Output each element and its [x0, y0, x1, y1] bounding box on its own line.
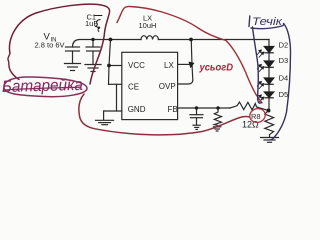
- svg-text:Батарейка: Батарейка: [2, 76, 83, 96]
- svg-text:D4: D4: [279, 74, 289, 83]
- svg-text:D5: D5: [279, 90, 289, 99]
- svg-text:12Ω: 12Ω: [242, 120, 259, 130]
- svg-text:V: V: [44, 32, 51, 43]
- svg-text:усьогD: усьогD: [199, 62, 234, 74]
- svg-text:CE: CE: [128, 83, 139, 92]
- svg-text:Течік: Течік: [252, 16, 283, 28]
- svg-text:LX: LX: [164, 61, 174, 70]
- svg-text:10uH: 10uH: [139, 21, 157, 30]
- svg-text:FB: FB: [168, 105, 178, 114]
- svg-text:D3: D3: [279, 56, 289, 65]
- svg-text:D2: D2: [279, 41, 289, 50]
- svg-text:OVP: OVP: [159, 82, 176, 91]
- svg-text:IN: IN: [51, 38, 57, 44]
- svg-text:1uF: 1uF: [85, 19, 98, 28]
- svg-text:VCC: VCC: [128, 61, 145, 70]
- svg-text:GND: GND: [128, 105, 146, 114]
